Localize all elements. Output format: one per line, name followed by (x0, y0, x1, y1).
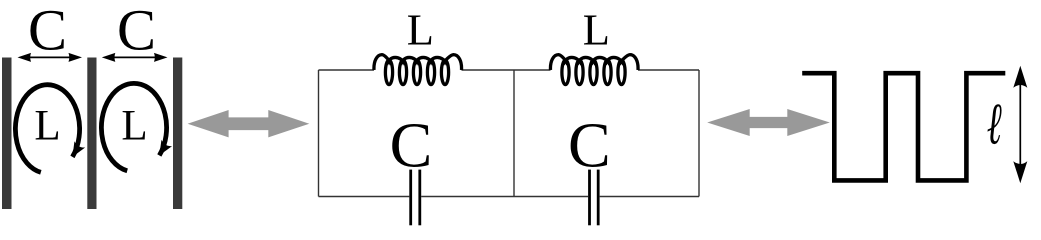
svg-text:L: L (121, 103, 147, 150)
svg-text:L: L (407, 4, 434, 54)
svg-text:C: C (390, 110, 433, 181)
svg-text:C: C (117, 0, 156, 63)
svg-text:ℓ: ℓ (987, 91, 1002, 157)
svg-text:C: C (28, 0, 67, 63)
svg-text:C: C (568, 110, 611, 181)
svg-text:L: L (583, 4, 610, 54)
svg-text:L: L (34, 103, 60, 150)
